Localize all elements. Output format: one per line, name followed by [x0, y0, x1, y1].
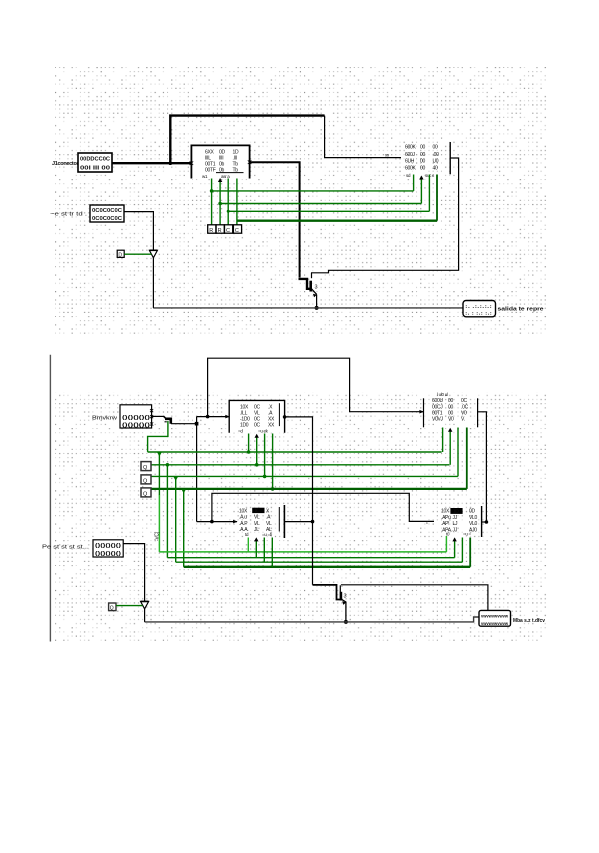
wire left net to U2	[197, 416, 230, 418]
buffer A1 triangle	[149, 250, 157, 257]
emitter arrow Q5	[342, 601, 346, 605]
U3 pin2 arrowhead	[254, 537, 258, 541]
transistor Q3 collector lead	[311, 273, 313, 278]
wire thick from J1 to U1	[112, 162, 191, 164]
svg-text:10X: 10X	[239, 508, 248, 514]
IC U3 texts	[252, 508, 264, 513]
green port D0	[117, 250, 124, 257]
svg-text:w1: w1	[202, 174, 208, 179]
node emitter rail	[344, 620, 348, 624]
svg-text:=u =b: =u =b	[262, 532, 273, 537]
terminal block X1	[463, 301, 496, 317]
svg-text:0C0C0C0C: 0C0C0C0C	[92, 216, 122, 222]
green wire U1 pin2 down	[219, 180, 221, 226]
node U5-U4 net	[485, 520, 489, 524]
node U3 left branch	[210, 520, 214, 524]
connector J4	[93, 540, 123, 557]
svg-text:C: C	[226, 228, 230, 234]
lower green bus 2	[167, 557, 454, 559]
wire U4 right pin down to U5	[478, 412, 487, 522]
green bus wire 2	[220, 203, 421, 205]
U2 green pin 4	[272, 434, 274, 489]
svg-text:600K: 600K	[405, 166, 416, 172]
svg-text:salida te repre: salida te repre	[498, 307, 544, 313]
svg-text:VL: VL	[254, 410, 260, 416]
svg-text:LJ: LJ	[453, 521, 458, 527]
svg-text:Q: Q	[110, 606, 114, 612]
node U2 right pin	[283, 415, 287, 419]
svg-text:-VC]: -VC]	[155, 531, 161, 541]
transistor Q3 base bar	[309, 281, 312, 292]
svg-text:R: R	[209, 228, 213, 234]
node	[271, 487, 275, 491]
dropper3 arrow	[174, 477, 178, 481]
wire U2 right to Q5 base line	[285, 417, 313, 585]
svg-text:00: 00	[448, 398, 453, 404]
svg-text:00: 00	[448, 411, 453, 417]
node at 207 junction	[206, 415, 210, 419]
green dropper 3	[175, 476, 177, 562]
green wire from Q4 down-left-down	[148, 421, 168, 452]
U1 pin mark left	[190, 161, 194, 165]
svg-text:C: C	[235, 228, 239, 234]
svg-text:V.: V.	[461, 417, 465, 423]
U4 green pin 2	[449, 429, 451, 465]
wire q4 out to node	[171, 423, 197, 425]
green wire U1 pin4 down	[236, 179, 238, 226]
wire buffer to rail	[144, 609, 146, 622]
svg-text:Q: Q	[143, 465, 148, 471]
svg-text:0C0C0C0C: 0C0C0C0C	[92, 208, 122, 214]
U3 green pin 4	[271, 538, 273, 567]
svg-text:vwvwvwvwvw: vwvwvwvwvw	[481, 621, 508, 626]
lower green bus 1 bright	[159, 551, 446, 553]
svg-text:.A.P: .A.P	[239, 521, 248, 527]
svg-text:40: 40	[433, 166, 438, 172]
wire buffer to rail	[152, 258, 154, 308]
U5 right bar	[481, 506, 483, 537]
svg-text:.A.u: .A.u	[239, 515, 247, 521]
svg-text:00: 00	[420, 166, 425, 172]
wire ground rail bottom	[145, 617, 479, 622]
svg-text:VL: VL	[254, 521, 260, 527]
svg-text:Pe st st st st...: Pe st st st st...	[42, 545, 89, 551]
sheet frame left edge	[49, 355, 51, 642]
svg-text:.ILL: .ILL	[240, 410, 248, 416]
green dropper 1 lower bright	[158, 495, 160, 552]
transistor Q3 emitter lead	[312, 289, 317, 295]
svg-text:0C: 0C	[254, 417, 260, 423]
svg-text:-1D0: -1D0	[240, 417, 250, 423]
node square at 196	[195, 422, 199, 426]
lower green bus 3	[176, 561, 463, 563]
svg-text:0C: 0C	[461, 398, 467, 404]
node green1	[210, 189, 214, 193]
wire J4 to buffer	[123, 544, 144, 601]
green wire U1 pin3 down	[227, 179, 229, 226]
svg-text:()()()()(): ()()()()()	[95, 551, 121, 557]
port Q0	[141, 462, 151, 471]
wire J2 to buffer	[124, 212, 153, 250]
svg-text:Bmvkrw: Bmvkrw	[92, 416, 118, 422]
node on Q5 net	[311, 520, 315, 524]
U4 left pin arrow	[419, 410, 424, 414]
grid dots bottom sheet	[55, 392, 548, 641]
U5 green pin 2	[454, 539, 456, 558]
svg-text:3: 3	[344, 594, 347, 600]
transistor Q5 collector lead	[339, 585, 341, 592]
U5 green pin 1 bright	[445, 536, 447, 552]
svg-text:l ul0 ul: l ul0 ul	[437, 392, 448, 397]
wire U3 right pin to Q5 net	[284, 521, 312, 523]
wire U3/U5 shared net	[212, 493, 434, 521]
wire U5 right pin	[482, 521, 487, 523]
connector J2	[90, 205, 124, 222]
U3 right bar	[283, 505, 285, 538]
svg-text::. : :.: :.:: :. : :.: :.:	[465, 311, 493, 316]
svg-text:XX: XX	[268, 417, 275, 423]
U3 inner bar	[278, 507, 280, 532]
svg-text:asr a: asr a	[221, 174, 230, 179]
U1 pin mark right	[248, 160, 252, 164]
svg-text:00: 00	[420, 145, 425, 151]
svg-text:0D: 0D	[469, 508, 475, 514]
node emitter-rail junction	[315, 306, 319, 310]
svg-text:1D: 1D	[233, 150, 239, 156]
svg-text:XX: XX	[268, 423, 275, 429]
terminal block X2	[479, 610, 511, 626]
node	[255, 463, 259, 467]
wire collector right	[341, 585, 488, 611]
green bus line 2	[151, 464, 449, 466]
port Q1	[141, 475, 151, 484]
svg-text:R: R	[218, 228, 222, 234]
svg-text:Q: Q	[143, 479, 148, 485]
port Q2	[141, 488, 151, 497]
U3 green pin 3	[263, 538, 265, 563]
U4 green pin 3	[457, 428, 459, 477]
svg-text:.00: .00	[433, 152, 440, 158]
svg-text:00CJ: 00CJ	[432, 404, 443, 410]
green dropper 2	[166, 465, 168, 558]
emitter arrow Q3	[313, 294, 317, 298]
svg-text:00TF: 00TF	[205, 168, 216, 174]
wire emitter down	[316, 295, 318, 308]
svg-text:00: 00	[420, 159, 425, 165]
svg-text::. .:.:.:.:: :. .:.:.:.:	[465, 304, 493, 309]
dropper4 arrow	[182, 489, 186, 493]
U3 green pin 2	[255, 539, 257, 558]
buffer A2 triangle	[141, 602, 149, 609]
wire ground rail top sheet	[153, 307, 463, 309]
green port D1	[109, 603, 116, 611]
RP1 green pin 3	[428, 175, 430, 212]
wire top loop	[208, 358, 424, 416]
RP1 pin2 arrowhead	[419, 176, 423, 180]
svg-text:600J: 600J	[405, 152, 415, 158]
U3 left pin arrow	[233, 520, 238, 524]
U5 green pin 3	[461, 538, 463, 563]
U2 green pin 2	[256, 435, 258, 465]
U2 left pin arrow	[225, 415, 230, 419]
U2 pin2 arrowhead	[255, 434, 259, 438]
svg-text:00I III 00: 00I III 00	[80, 166, 110, 172]
green dropper 4	[183, 489, 185, 567]
svg-text:00: 00	[448, 404, 453, 410]
U4 pin2 arrowhead	[448, 428, 452, 432]
U5 green pin 4	[469, 538, 471, 567]
svg-text:V0: V0	[448, 417, 454, 423]
RP1 green pin 2	[420, 177, 422, 204]
grid dots top sheet	[55, 67, 548, 336]
svg-text:6XX: 6XX	[205, 150, 215, 156]
svg-text:600U: 600U	[432, 398, 443, 404]
svg-text:00DDCC0C: 00DDCC0C	[80, 157, 110, 163]
J3 pin marks	[150, 409, 153, 426]
svg-text:JL: JL	[254, 527, 259, 533]
wire thick U1 output right	[250, 162, 300, 277]
IC U5 texts	[450, 508, 462, 514]
U2 inner bar	[278, 403, 280, 426]
port RC2	[225, 225, 233, 233]
svg-text:V0VJ: V0VJ	[432, 417, 444, 423]
U5 pin2 arrowhead	[452, 537, 456, 541]
svg-text:10X: 10X	[240, 404, 249, 410]
wire thin down to RP1 row	[325, 116, 401, 158]
green wire U1 pin1 down	[211, 179, 213, 226]
RP1 green pin 4	[436, 175, 438, 221]
svg-text:()()()()(): ()()()()()	[122, 423, 150, 429]
op-amp U1 box	[191, 145, 249, 178]
svg-text:=u =: =u =	[463, 532, 471, 537]
green bus line 4 thick	[151, 488, 467, 490]
transistor Q5 base jog	[313, 585, 342, 600]
svg-text:1D: 1D	[453, 509, 459, 515]
svg-text:()()()()(): ()()()()()	[95, 543, 121, 549]
green wire D0 to buffer	[124, 253, 151, 255]
svg-text:Mba s.z t.dfcv: Mba s.z t.dfcv	[513, 618, 545, 624]
U4 green pin 1	[442, 428, 444, 453]
green bus line 3	[151, 475, 458, 477]
svg-text:V0: V0	[461, 411, 467, 417]
port RC1	[216, 225, 224, 233]
green bus wire 1	[212, 190, 414, 192]
connector J3	[120, 405, 152, 428]
green bus line 1	[148, 451, 442, 453]
green bus wire 4 thick	[237, 220, 437, 222]
wire collector net to RP1	[311, 158, 459, 273]
svg-text:.AP!: .AP!	[441, 521, 449, 527]
lower green bus 4 thick	[184, 566, 471, 568]
svg-text:VL0: VL0	[469, 515, 478, 521]
svg-text:00: 00	[420, 152, 425, 158]
svg-text:J1conector: J1conector	[52, 161, 80, 167]
svg-text:VL: VL	[254, 515, 260, 521]
transistor Q5 emitter lead	[342, 599, 346, 622]
node dropper2	[166, 463, 170, 467]
green bus wire 3	[228, 210, 429, 212]
svg-text:6UH: 6UH	[405, 159, 415, 165]
svg-text:600K: 600K	[405, 145, 416, 151]
IC U2 box	[229, 400, 284, 432]
port RC0	[208, 225, 216, 233]
node green3	[227, 210, 230, 213]
svg-text:~e st tr td .: ~e st tr td .	[50, 212, 87, 218]
U2 green pin 1	[248, 434, 250, 453]
svg-text:()()()()(): ()()()()()	[122, 415, 150, 421]
IC U4 left bar	[423, 398, 425, 427]
U2 green pin 3	[264, 434, 266, 477]
port RC3	[233, 225, 241, 233]
pin2 arrowhead	[218, 178, 222, 182]
RP1 green pin 1	[413, 175, 415, 191]
RP1 right bar	[449, 142, 451, 174]
svg-text:0D: 0D	[219, 150, 225, 156]
svg-text:3: 3	[315, 285, 318, 291]
wire left net down	[196, 417, 198, 522]
svg-text:VL0: VL0	[469, 521, 478, 527]
green wire D1 to buffer	[116, 605, 143, 607]
svg-text:.0C: .0C	[461, 404, 469, 410]
svg-text:0C: 0C	[254, 404, 260, 410]
U3 green pin 1	[247, 538, 249, 552]
svg-text:00: 00	[433, 145, 438, 151]
node	[247, 450, 251, 454]
svg-text:00T1: 00T1	[432, 411, 443, 417]
node junction J1 wire	[169, 161, 173, 165]
svg-text:VL: VL	[266, 521, 272, 527]
svg-text:=u ek: =u ek	[258, 429, 269, 434]
svg-text:vwvwvwvwvw: vwvwvwvwvw	[481, 614, 508, 619]
transistor Q5 base bar	[340, 592, 343, 601]
IC U4 right bar	[477, 398, 479, 427]
node	[263, 475, 267, 479]
svg-text:10X: 10X	[441, 508, 450, 514]
svg-text:.APu: .APu	[441, 515, 451, 521]
node green2	[218, 202, 222, 206]
U4 green pin 4	[466, 428, 468, 489]
dropper1 arrow	[157, 453, 161, 457]
transistor Q3 base jog	[299, 279, 312, 289]
transistor Q4 small	[152, 415, 164, 417]
svg-text:=d: =d	[238, 429, 243, 434]
wire to U3 left pin	[197, 521, 237, 523]
green dropper 1 upper	[158, 452, 160, 495]
svg-text:Q: Q	[143, 492, 148, 498]
wire thick up-over from node to right	[170, 116, 324, 164]
connector J1	[78, 153, 112, 172]
svg-text:U0: U0	[433, 159, 439, 165]
